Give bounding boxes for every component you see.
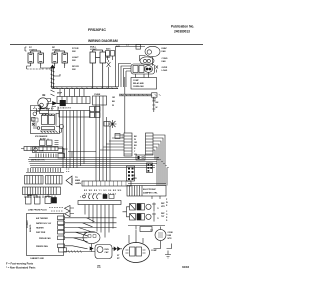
svg-text:CABINET GND: CABINET GND (30, 257, 44, 260)
svg-text:FRS26F4C: FRS26F4C (88, 28, 106, 32)
svg-text:FRIDGE FAN: FRIDGE FAN (39, 237, 51, 240)
line filter block (26, 195, 41, 204)
label right of compressor (151, 250, 157, 252)
svg-text:Publication No.: Publication No. (171, 25, 194, 29)
circled terminal mark (56, 125, 64, 133)
bus end connector box (152, 93, 158, 100)
svg-text:COND: COND (162, 58, 168, 60)
hatched trunk wire horizontal (52, 87, 118, 89)
bracket joining switch rows (123, 207, 130, 217)
connector block row B1 (25, 176, 44, 185)
svg-text:DEF: DEF (106, 57, 111, 59)
interference capacitor w/ dark half (45, 194, 57, 204)
bus right corner drops (157, 158, 169, 186)
small box under auger motor (34, 107, 49, 114)
svg-text:BOARD: BOARD (29, 224, 32, 232)
wrap-around wires from P2 to right (153, 135, 165, 166)
wire with inline connector to fan (120, 44, 145, 49)
svg-text:FREEZE FAN: FREEZE FAN (36, 245, 48, 248)
run capacitor rounded box (95, 245, 112, 259)
svg-text:POWER: POWER (27, 220, 29, 228)
hatched bus lower segment (119, 94, 161, 96)
vertical wire from relay to connector row (124, 96, 126, 133)
branch wire to compressor label (54, 74, 60, 76)
small relay box pair top (106, 48, 115, 61)
svg-text:TO: TO (75, 177, 78, 179)
harness arrow symbol (66, 176, 72, 185)
inline connector row above P1 (115, 134, 124, 139)
svg-text:4B: 4B (42, 93, 45, 97)
corner wire bottom right (167, 244, 172, 249)
compressor relay + overload assembly (131, 64, 158, 74)
fridge fan motor oval (83, 232, 100, 244)
rotated label row 2 (161, 213, 165, 218)
main harness connector P2 (right tall box) (146, 133, 154, 155)
compressor motor ellipse (123, 243, 150, 263)
auger motor circle (38, 98, 51, 108)
svg-text:COMP: COMP (133, 80, 139, 82)
hatched trunk wire vertical (51, 65, 55, 96)
svg-text:F = Fast-moving Parts: F = Fast-moving Parts (6, 262, 34, 266)
svg-text:WATER SOL VLV: WATER SOL VLV (36, 222, 52, 225)
svg-text:HARN: HARN (75, 182, 81, 185)
freezer lamp socket L1 (28, 51, 44, 66)
rotated label row 1 (161, 203, 165, 208)
svg-text:WIRING DIAGRAM: WIRING DIAGRAM (88, 39, 118, 43)
svg-text:ADC: ADC (106, 48, 111, 51)
svg-text:MAIN: MAIN (75, 179, 81, 182)
board terminal text rows (36, 217, 52, 248)
svg-text:HTR: HTR (39, 151, 44, 153)
board terminal tabs (58, 216, 65, 248)
small column marks left of vertical wire (112, 97, 116, 107)
dashed wires to arrows (49, 208, 63, 212)
vertical drops from collector strip (85, 205, 113, 238)
wires into compressor top (129, 230, 143, 243)
svg-text:RF DR: RF DR (72, 66, 79, 68)
main harness connector P1 (left tall box) (124, 133, 132, 156)
label column overload (162, 67, 168, 72)
defrost thermostat X symbol (106, 57, 111, 88)
wire below timer box (152, 196, 160, 199)
svg-text:* = Non-Illustrated Parts: * = Non-Illustrated Parts (6, 266, 36, 270)
svg-text:HEATER: HEATER (36, 227, 44, 230)
vertical wire with tick labels (152, 97, 159, 112)
ice maker internal parts (32, 112, 61, 133)
svg-text:W: W (156, 107, 158, 109)
water valve box with pins (93, 94, 107, 105)
dispenser micro switch arrow (53, 102, 61, 106)
wires above ice maker (31, 104, 57, 111)
wire into fridge fan (85, 228, 97, 235)
svg-text:LINE FROM PLUG: LINE FROM PLUG (28, 210, 47, 212)
condenser fan motor circle (155, 230, 166, 241)
svg-text:RUN: RUN (105, 249, 110, 251)
junction diamonds before compressor (112, 247, 122, 251)
wires from board terminals fanning right (65, 218, 117, 249)
evaporator fan motor oval (145, 46, 160, 56)
wire bundle below J2 (63, 117, 84, 168)
label left of compressor (117, 255, 120, 260)
right rotated text column (166, 199, 168, 222)
svg-text:B5 W2 R8 Y1 G3 O6 B2 W9: B5 W2 R8 Y1 G3 O6 B2 W9 (84, 190, 122, 192)
vertical drops from water valve (96, 105, 110, 181)
junction asterisk symbol (104, 120, 117, 128)
wire from bus into timer box (128, 183, 166, 185)
svg-text:21: 21 (97, 265, 101, 269)
pin row under heater strip (36, 154, 65, 159)
svg-text:OVERLOAD: OVERLOAD (133, 85, 144, 88)
svg-text:W: W (134, 139, 136, 141)
long horizontal wire bus (28, 158, 159, 168)
collector strip over board (78, 201, 121, 205)
tick row under connector C (25, 196, 55, 199)
refrigerator lamp socket L2 (52, 51, 68, 66)
svg-text:EVAP: EVAP (162, 47, 168, 50)
svg-text:CUBE: CUBE (94, 94, 101, 96)
defrost switch row 1 (130, 203, 160, 212)
wire J2 left leg (56, 107, 59, 126)
header rule (10, 44, 203, 46)
connector block row C (23, 187, 61, 195)
harness arrows at board input (65, 206, 75, 217)
rotated label condenser fan (168, 232, 174, 240)
defrost heater feed wire (59, 248, 96, 253)
wire below switch rows (128, 226, 165, 230)
svg-text:04/03: 04/03 (182, 265, 189, 269)
defrost switch row 2 (130, 213, 160, 222)
svg-text:RELAY AND: RELAY AND (133, 82, 144, 85)
svg-text:FZ DR: FZ DR (72, 48, 79, 50)
small dark connector on right bundle (147, 163, 153, 173)
svg-text:AIR THERMO: AIR THERMO (36, 217, 49, 220)
bus drops into connector J1 (60, 89, 84, 97)
mullion lamp socket L3 (90, 50, 106, 88)
compressor info text box (131, 78, 157, 90)
svg-text:W: W (166, 202, 168, 204)
defrost timer box (127, 186, 166, 197)
svg-text:LIGHT: LIGHT (72, 57, 79, 59)
wires compressor to bus (125, 56, 153, 95)
timer feed connector (dark pins) (127, 166, 135, 181)
connector block row B2 (46, 176, 63, 185)
svg-text:OVER: OVER (162, 67, 168, 69)
svg-text:1 2 3 4 5 6 7 8: 1 2 3 4 5 6 7 8 (58, 107, 72, 110)
bracket mark top-left (25, 47, 27, 51)
label column LIGHT SWITCH (72, 48, 79, 71)
wires from lamp sockets down (27, 66, 65, 69)
small box grid right of J2 (90, 107, 101, 118)
svg-text:COMP: COMP (151, 250, 157, 252)
label column cond fan (162, 58, 168, 63)
svg-text:240389013: 240389013 (174, 30, 190, 34)
wire labels between connectors (134, 136, 137, 156)
rotated board label (27, 220, 32, 232)
small box under switch rows (140, 227, 152, 232)
solenoid black box (60, 100, 66, 106)
svg-text:FAN: FAN (162, 60, 167, 63)
label column mullion switch (116, 45, 120, 48)
ground symbol (165, 251, 171, 259)
svg-text:DEFROST HTR: DEFROST HTR (31, 160, 45, 162)
inline fuse box on bus (136, 155, 145, 160)
svg-text:FAN: FAN (162, 50, 167, 53)
svg-text:LOAD: LOAD (162, 69, 168, 72)
fill cup heater cluster (40, 138, 59, 146)
mullion heater strip (33, 147, 97, 158)
harness leads into P1 (100, 135, 124, 150)
nested corner wires right of mullion (116, 47, 132, 88)
label column evap fan (162, 47, 168, 53)
connector block J2 with drops (59, 111, 90, 118)
svg-text:COND: COND (168, 232, 174, 234)
condenser fan motor oval (140, 57, 154, 65)
svg-text:DAMPER CTRL: DAMPER CTRL (143, 192, 158, 195)
wire arrows left of run cap (90, 244, 93, 252)
inline connector row over board wires (80, 195, 114, 200)
connector block J1 (57, 97, 90, 104)
ice maker assembly outline (31, 109, 60, 134)
pin tick row A above connector (26, 168, 70, 173)
rotated label right of strip (133, 175, 138, 180)
wires around condenser fan (150, 227, 161, 249)
svg-text:ELECTRONIC: ELECTRONIC (143, 189, 157, 191)
power supply board outline (27, 214, 64, 256)
defrost heater strip on bus (21, 147, 64, 158)
svg-text:W: W (112, 105, 114, 107)
svg-text:MTR: MTR (168, 238, 173, 240)
svg-text:DISP FWR: DISP FWR (36, 232, 46, 234)
long harness connector strip (82, 181, 131, 186)
rotated label right of arrow (75, 177, 81, 185)
